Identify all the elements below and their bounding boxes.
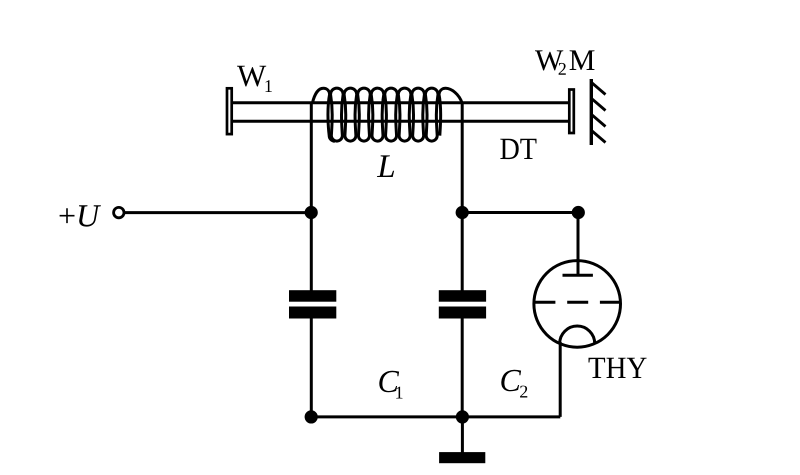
node A junction dot xyxy=(305,206,318,219)
wire terminal to node A xyxy=(125,211,311,214)
capacitor C1 bottom plate xyxy=(289,307,336,319)
capacitor C2 bottom plate xyxy=(439,307,486,319)
input terminal xyxy=(114,207,124,217)
ground xyxy=(439,452,485,463)
grid dash 2 xyxy=(567,301,588,304)
cathode dome xyxy=(560,326,595,343)
anode plate xyxy=(563,274,593,277)
capacitor C2 top plate xyxy=(439,290,486,302)
label W1 xyxy=(237,66,272,92)
node B junction dot xyxy=(456,206,469,219)
rod top line xyxy=(233,101,569,104)
thyratron THY envelope xyxy=(534,261,621,348)
bottom-middle junction dot xyxy=(456,410,469,423)
wall hatch 2 xyxy=(592,99,606,111)
cathode lead wire xyxy=(559,342,562,417)
wire node B to anode node xyxy=(462,211,578,214)
ground stub wire xyxy=(461,417,464,453)
capacitor C1 top plate xyxy=(289,290,336,302)
label C2 xyxy=(501,370,527,398)
grid dash 3 xyxy=(600,301,621,304)
right support plate W2 xyxy=(569,90,574,134)
label C1 xyxy=(379,371,402,399)
bottom-left junction dot xyxy=(305,410,318,423)
wall hatch 1 xyxy=(592,83,606,95)
rod bottom line xyxy=(233,120,569,123)
wire anode lead xyxy=(577,213,580,277)
label +U xyxy=(60,205,101,226)
anode node junction dot xyxy=(572,206,585,219)
bottom rail wire xyxy=(311,415,560,418)
wire C2 to bottom rail xyxy=(461,318,464,417)
label DT xyxy=(500,139,536,159)
wall hatch 4 xyxy=(592,131,606,143)
wire left vertical (rod to C1) xyxy=(310,102,313,291)
wall hatch 3 xyxy=(592,115,606,127)
wire C1 to bottom rail xyxy=(310,318,313,417)
coil L xyxy=(312,88,462,141)
grid dash 1 xyxy=(535,301,556,304)
wall line xyxy=(590,79,593,145)
left support plate W1 xyxy=(227,88,232,134)
label L xyxy=(377,155,394,177)
label W2M xyxy=(535,50,595,74)
label THY xyxy=(589,358,647,378)
wire right vertical (rod to C2) xyxy=(461,102,464,291)
